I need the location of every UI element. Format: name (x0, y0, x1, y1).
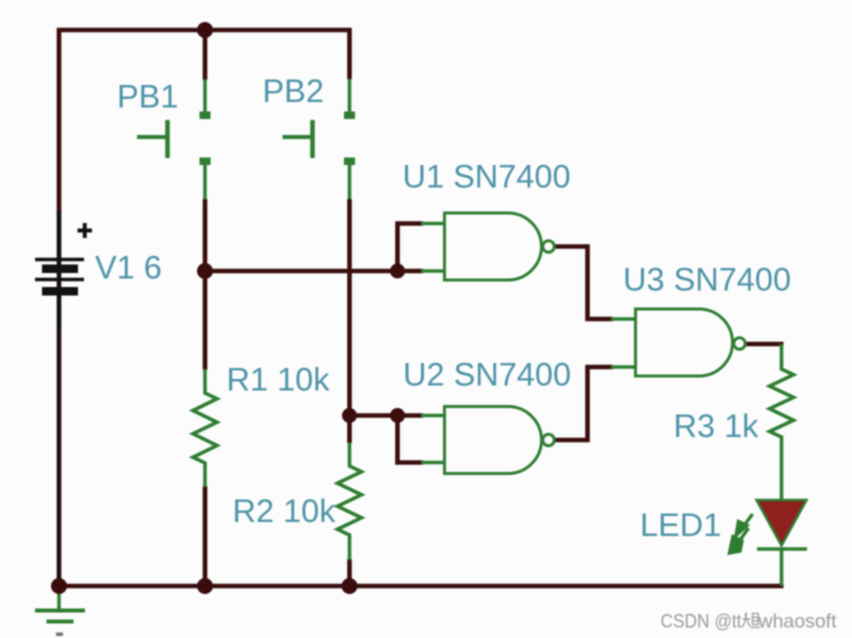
svg-text:PB1: PB1 (117, 79, 178, 115)
svg-text:V1 6: V1 6 (95, 250, 162, 286)
svg-text:R1 10k: R1 10k (227, 362, 331, 398)
svg-text:PB2: PB2 (263, 73, 324, 109)
svg-text:R3 1k: R3 1k (674, 408, 760, 444)
svg-text:CSDN @tt: CSDN @tt (661, 611, 743, 633)
svg-text:U3 SN7400: U3 SN7400 (623, 262, 791, 298)
svg-text:R2 10k: R2 10k (233, 493, 337, 529)
svg-text:whaosoft: whaosoft (758, 611, 838, 633)
svg-text:LED1: LED1 (640, 507, 721, 543)
svg-text:U2 SN7400: U2 SN7400 (403, 357, 571, 393)
svg-text:U1 SN7400: U1 SN7400 (403, 159, 571, 195)
